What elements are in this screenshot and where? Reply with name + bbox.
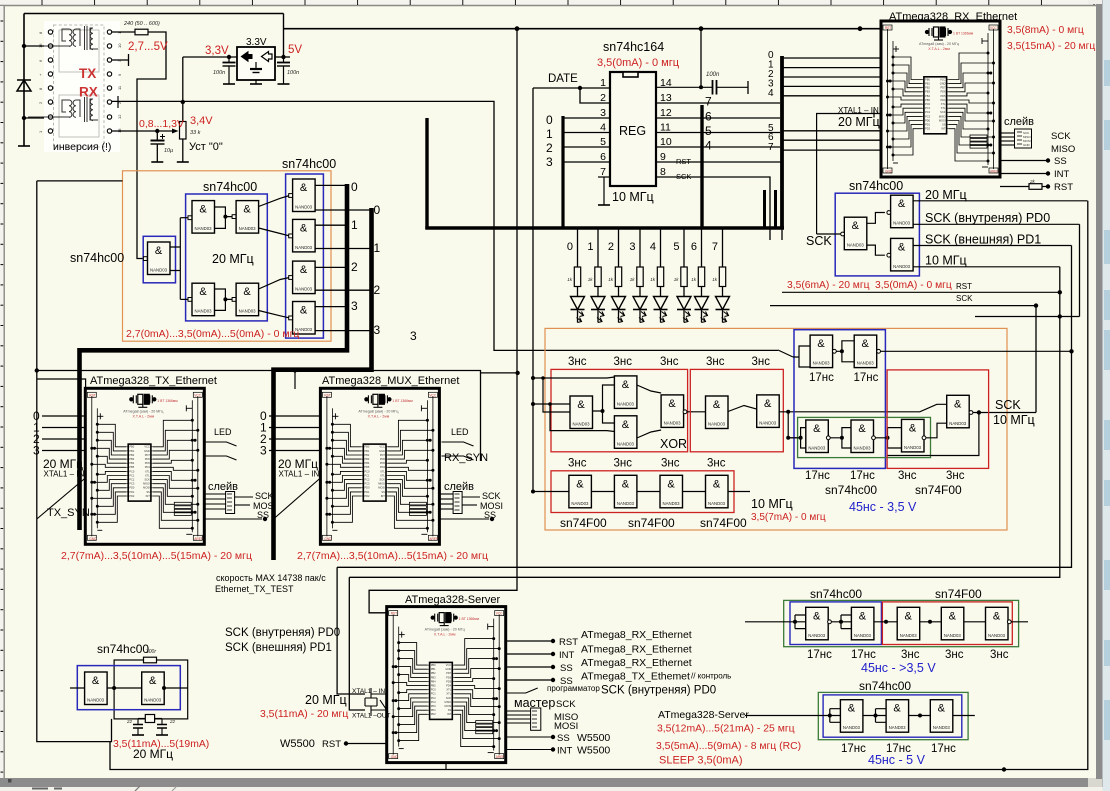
wire box A right rail (283, 14, 285, 58)
bottom scrollbar (0, 778, 1110, 787)
LED column 5 (683, 229, 685, 267)
node dot (699, 26, 704, 31)
RST wire from pin9 (656, 162, 782, 240)
node dot (227, 55, 231, 59)
blue box B (823, 695, 962, 737)
svg-text:20 МГц: 20 МГц (925, 188, 967, 202)
thick bus 1 (80, 184, 348, 530)
svg-text:2,7...5V: 2,7...5V (128, 41, 168, 53)
input wires from bus (783, 58, 881, 150)
regulator gnd (255, 80, 257, 84)
svg-text:инверсия (!): инверсия (!) (53, 141, 111, 153)
svg-text:MISO: MISO (1051, 144, 1075, 155)
long mid horizontals (337, 29, 1071, 710)
svg-text:2: 2 (374, 283, 381, 297)
svg-text:sn74hc00: sn74hc00 (97, 642, 149, 656)
node dot (155, 129, 159, 133)
NANDT3 output wires (170, 218, 180, 300)
blue box right tall (286, 174, 324, 338)
blue box left small (143, 236, 175, 282)
svg-text:3,5(5mA)...5(9mA) - 8 мгц (RC): 3,5(5mA)...5(9mA) - 8 мгц (RC) (656, 741, 801, 752)
bullet (263, 517, 267, 521)
svg-text:2: 2 (351, 260, 358, 274)
svg-text:ATmega328_MUX_Ethernet: ATmega328_MUX_Ethernet (322, 375, 459, 387)
svg-text:DATE: DATE (548, 73, 578, 85)
wire to NAND62 (180, 298, 188, 300)
svg-text:6: 6 (600, 151, 606, 163)
green box A (784, 600, 1019, 646)
svg-text:SCK: SCK (806, 234, 832, 248)
LED column 0 (577, 229, 579, 267)
MUX out wires (440, 494, 489, 519)
svg-text:3нс: 3нс (614, 458, 633, 470)
thick stub pair (763, 190, 766, 228)
svg-text:3,5(7mA) - 0 мгц: 3,5(7mA) - 0 мгц (751, 512, 826, 523)
box wire top (37, 371, 481, 462)
orange box big (545, 328, 1007, 530)
LED column 7 (722, 229, 724, 267)
input wire from left (533, 491, 569, 493)
node dot (840, 349, 844, 353)
svg-text:SCK: SCK (482, 491, 501, 501)
REG body (610, 72, 656, 186)
right scrollbar / window edge (1096, 0, 1103, 779)
gate NANDC5 bottom (891, 238, 914, 271)
bus labels (351, 180, 417, 343)
cap 100n left (223, 57, 236, 84)
svg-text:33 k: 33 k (190, 130, 201, 136)
svg-text:Уст "0": Уст "0" (189, 141, 223, 153)
input square (232, 215, 236, 219)
master wires (506, 711, 553, 750)
input square (232, 298, 236, 302)
red box A (882, 602, 1012, 645)
node dot (858, 26, 863, 31)
svg-text:INT: INT (1054, 169, 1070, 180)
caps (133, 719, 167, 736)
node dot (281, 55, 285, 59)
svg-text:SCK (внутреняя) PD0: SCK (внутреняя) PD0 (601, 685, 716, 697)
svg-text:3нс: 3нс (568, 356, 587, 368)
left ruler (0, 6, 4, 778)
wire to TX port (24, 45, 50, 47)
stub y60 (112, 54, 129, 66)
gate NANDC4 top (891, 195, 914, 228)
DATE wire (533, 88, 610, 103)
input circle (887, 211, 891, 215)
bus-in wires (563, 118, 610, 162)
svg-text:3нс: 3нс (706, 356, 725, 368)
green box (798, 417, 931, 457)
svg-text:программатор: программатор (547, 684, 600, 693)
wire to RX port (24, 117, 50, 119)
red box 2 (690, 369, 783, 451)
svg-text:3нс: 3нс (661, 458, 680, 470)
ground pin7 (603, 177, 605, 205)
svg-text:3,5(6mA) - 20 мгц: 3,5(6mA) - 20 мгц (787, 280, 870, 291)
svg-text:sn74hc00: sn74hc00 (859, 679, 911, 693)
3нс labels row1 (568, 356, 770, 368)
svg-text:W5500: W5500 (280, 738, 315, 750)
svg-text:0,8...1,3V: 0,8...1,3V (139, 118, 184, 130)
gate NAND04 (661, 395, 684, 428)
wire to NAND65 (180, 217, 188, 219)
svg-text:ATmega328-Server: ATmega328-Server (658, 709, 749, 721)
svg-text:10 МГц: 10 МГц (925, 254, 967, 268)
ethernet transformer ghost block (28, 21, 122, 152)
MUX top entry (294, 371, 296, 390)
gate NAND53 (660, 475, 683, 508)
gate NAND09 (757, 395, 780, 428)
svg-text:3,5(15mA) - 20 мгц: 3,5(15mA) - 20 мгц (1007, 41, 1095, 52)
svg-text:9: 9 (660, 151, 666, 163)
node dots (793, 620, 797, 624)
gate NAND12 (810, 335, 833, 368)
svg-text:5: 5 (705, 124, 712, 138)
out wires SCK MISO (1000, 133, 1015, 145)
svg-text:12: 12 (660, 107, 672, 119)
svg-text:XTAL1 – IN: XTAL1 – IN (279, 470, 320, 479)
crystal (138, 715, 162, 723)
output wires with labels (913, 201, 1087, 267)
svg-text:INT: INT (557, 746, 573, 757)
svg-text:TX_SYN: TX_SYN (47, 507, 90, 519)
svg-text:0: 0 (567, 241, 573, 253)
svg-text:1k: 1k (630, 277, 636, 282)
tick on RX wire (117, 96, 119, 108)
svg-text:REG: REG (619, 124, 646, 138)
svg-text:3: 3 (260, 444, 267, 458)
node dot (578, 86, 582, 90)
svg-text:5: 5 (673, 241, 679, 253)
svg-text:1k: 1k (608, 277, 614, 282)
svg-text:45нс - >3,5 V: 45нс - >3,5 V (861, 661, 936, 675)
svg-text:300r: 300r (146, 649, 156, 655)
thick reg bus left (561, 116, 564, 228)
svg-text:sn74F00: sn74F00 (935, 587, 982, 601)
xor wiring (533, 377, 694, 438)
gate NAND11 (854, 335, 877, 368)
svg-text:10 МГц: 10 МГц (993, 413, 1035, 427)
svg-text:3: 3 (410, 329, 417, 343)
input circle (887, 253, 891, 257)
svg-text:240 (50 .. 600): 240 (50 .. 600) (123, 21, 160, 27)
node dot (35, 368, 39, 372)
svg-text:1: 1 (587, 241, 593, 253)
svg-text:3,5(0mA) - 0 мгц: 3,5(0mA) - 0 мгц (875, 280, 952, 291)
cap C 10u (151, 131, 166, 162)
svg-text:sn74hc00: sn74hc00 (70, 251, 124, 265)
diode D1 (17, 80, 31, 91)
node dots (1058, 290, 1062, 294)
wiring box2 (694, 404, 947, 438)
svg-text:6: 6 (691, 241, 697, 253)
svg-text:22: 22 (169, 719, 176, 724)
gate NANDC2 (947, 395, 970, 428)
top-left entry wire (37, 379, 86, 389)
long RX wire y102 (112, 101, 778, 350)
node dots (799, 436, 803, 440)
red box right (887, 370, 989, 469)
svg-text:2: 2 (600, 92, 606, 104)
svg-text:22: 22 (126, 719, 133, 724)
svg-text:2: 2 (608, 241, 614, 253)
svg-text:3нс: 3нс (614, 356, 633, 368)
SCK wire from pin8 (656, 177, 770, 240)
chain A gates (806, 607, 829, 640)
svg-text:ATmega8_RX_Ethernet: ATmega8_RX_Ethernet (581, 644, 692, 656)
svg-text:10μ: 10μ (164, 148, 173, 154)
bus labels 0-3 MUX (260, 409, 267, 458)
notch (623, 72, 638, 77)
connector TX (226, 492, 235, 514)
svg-text:2k: 2k (1029, 179, 1036, 184)
output bubbles (833, 349, 837, 353)
xtal wire (817, 110, 882, 235)
svg-text:1: 1 (600, 77, 606, 89)
node dot (293, 368, 297, 372)
svg-text:W5500: W5500 (577, 745, 610, 757)
wires osc (70, 687, 188, 689)
thick stub mid (700, 105, 703, 228)
svg-text:17нс: 17нс (841, 743, 866, 755)
svg-text:1k: 1k (712, 277, 718, 282)
TX transformer windings (28, 26, 98, 50)
labels under A (807, 649, 1009, 661)
svg-text:3нс: 3нс (946, 470, 965, 482)
svg-text:17нс: 17нс (809, 372, 834, 384)
LED column 6 (701, 229, 703, 267)
TX out wires (205, 494, 262, 519)
svg-text:20 МГц: 20 МГц (305, 693, 347, 707)
svg-text:2: 2 (546, 141, 553, 155)
master connector (531, 708, 541, 730)
svg-text:0: 0 (351, 180, 358, 194)
connector (1015, 129, 1032, 148)
svg-text:0: 0 (546, 113, 553, 127)
in wire (817, 233, 841, 235)
svg-text:3нс: 3нс (945, 649, 964, 661)
left big box rail (37, 181, 112, 742)
svg-text:SCK (внутреняя) PD0: SCK (внутреняя) PD0 (225, 627, 340, 639)
svg-text:4: 4 (705, 139, 712, 153)
svg-text:sn74F00: sn74F00 (560, 516, 607, 530)
pin numbers right (660, 77, 672, 178)
svg-text:XOR: XOR (660, 437, 687, 451)
gate NANDF1 (85, 672, 108, 705)
svg-text:ATmega8_RX_Ethernet: ATmega8_RX_Ethernet (581, 657, 692, 669)
svg-text:17нс: 17нс (807, 649, 832, 661)
svg-text:4: 4 (768, 88, 774, 99)
svg-text:Ethernet_TX_TEST: Ethernet_TX_TEST (215, 584, 294, 594)
svg-text:5: 5 (600, 136, 606, 148)
svg-text:2,7(7mA)...3,5(10mA)...5(15mA): 2,7(7mA)...3,5(10mA)...5(15mA) - 20 мгц (61, 550, 252, 562)
svg-text:SS: SS (560, 663, 573, 674)
svg-text:RST: RST (956, 282, 972, 291)
svg-text:7: 7 (705, 95, 712, 109)
svg-text:45нс - 5 V: 45нс - 5 V (868, 753, 926, 767)
node dot (515, 26, 520, 31)
labels SCK MISO SS INT RST (1051, 131, 1075, 193)
pin number marks (38, 31, 122, 133)
pin7 stub (598, 176, 610, 178)
svg-text:1k: 1k (650, 277, 656, 282)
wire top of left box (37, 180, 123, 182)
DATE vertical (532, 88, 534, 492)
link NAND65-NAND64 (215, 207, 235, 228)
red box XOR (551, 369, 688, 451)
svg-text:1k: 1k (691, 277, 697, 282)
svg-text:10: 10 (660, 136, 672, 148)
svg-text:SCK (внутреняя) PD0: SCK (внутреняя) PD0 (925, 211, 1050, 225)
gate NANDC1 (902, 419, 925, 452)
RST/SCK wires to margin (770, 292, 1080, 316)
node dot (22, 44, 26, 48)
svg-text:3нс: 3нс (568, 458, 587, 470)
svg-text:ATmega328-Server: ATmega328-Server (405, 594, 501, 606)
blue box (77, 666, 180, 710)
top bus y28.7 (284, 28, 882, 30)
top ruler (0, 0, 1110, 5)
chain A wires (745, 615, 1028, 629)
node dot (22, 116, 26, 120)
gate NAND07 (614, 376, 637, 409)
svg-text:17нс: 17нс (931, 743, 956, 755)
svg-text:SCK (внешняя) PD1: SCK (внешняя) PD1 (225, 642, 332, 654)
gate NAND66 (236, 283, 259, 316)
svg-text:7: 7 (712, 241, 718, 253)
node dot (223, 297, 227, 301)
lower chain wiring (788, 413, 1036, 456)
svg-text:1: 1 (546, 127, 553, 141)
svg-text:13: 13 (660, 92, 672, 104)
wiring top pair (778, 341, 1072, 367)
resistor R240 (135, 29, 148, 35)
svg-text:1: 1 (374, 241, 381, 255)
svg-text:SCK: SCK (1051, 131, 1071, 142)
svg-text:ATmega8_TX_Ethemet: ATmega8_TX_Ethemet (581, 671, 690, 683)
blue box A (790, 602, 881, 645)
labels ATmega8_xx (581, 629, 692, 683)
port circles right (107, 30, 111, 133)
gate NAND42 (806, 420, 829, 453)
svg-text:3: 3 (351, 299, 358, 313)
pin numbers left (600, 77, 606, 178)
bullet + wire (344, 741, 348, 745)
svg-text:RST: RST (322, 739, 341, 750)
gate NANDF2 (142, 672, 165, 705)
svg-text:4: 4 (600, 122, 606, 134)
svg-text:3: 3 (546, 155, 553, 169)
gate NAND05 (614, 416, 637, 449)
wire from R240 (137, 32, 166, 259)
resistor on top (144, 657, 157, 663)
node dot (515, 371, 519, 375)
input square (188, 298, 192, 302)
MUX input wires (269, 416, 320, 451)
blue box mid (186, 194, 268, 321)
LED arrows MUX (442, 442, 474, 460)
svg-text:sn74hc00: sn74hc00 (825, 483, 877, 497)
window corner mark (0, 0, 3, 13)
cap 100n top (656, 29, 748, 95)
RX transformer windings (28, 97, 98, 122)
svg-text:GND: GND (1023, 143, 1031, 147)
svg-text:3: 3 (374, 323, 381, 337)
thick bus 2 (274, 208, 372, 560)
svg-text:3нс: 3нс (901, 649, 920, 661)
svg-text:1k: 1k (674, 277, 680, 282)
svg-text:sn74F00: sn74F00 (628, 516, 675, 530)
node dots (828, 714, 832, 718)
svg-text:3нс: 3нс (660, 356, 679, 368)
links (867, 213, 885, 256)
green box B (818, 692, 968, 739)
node dot (181, 100, 185, 104)
svg-text:8: 8 (660, 166, 666, 178)
REG enclosure thick left (425, 118, 428, 229)
svg-text:3.3V: 3.3V (246, 37, 267, 48)
LED column 4 (660, 229, 662, 267)
LED arrows (205, 442, 237, 460)
svg-text:SS: SS (557, 733, 570, 744)
right column gates NAND60 NAND61 NAND63 NAND67 (293, 179, 316, 212)
svg-text:sn74hc00: sn74hc00 (849, 179, 903, 193)
ground (18, 145, 30, 147)
node dot (223, 215, 227, 219)
gate NAND08 (706, 396, 729, 429)
svg-text:RST: RST (1054, 182, 1073, 193)
svg-text:17нс: 17нс (854, 372, 879, 384)
svg-text:RX_SYN: RX_SYN (444, 452, 488, 464)
svg-text:SS: SS (1054, 156, 1067, 167)
input square (188, 216, 192, 220)
bubbles (828, 620, 832, 624)
port circles left (48, 30, 52, 133)
NAND66 out wires (259, 278, 290, 318)
svg-text:3: 3 (33, 444, 40, 458)
svg-text:слейв: слейв (1004, 116, 1034, 128)
svg-text:0: 0 (374, 203, 381, 217)
svg-text:2,7(0mA)...3,5(0mA)...5(0mA) -: 2,7(0mA)...3,5(0mA)...5(0mA) - 0 мгц (126, 328, 299, 340)
chain wires (591, 491, 750, 493)
ground (177, 161, 189, 163)
svg-text:ATmega328_TX_Ethernet: ATmega328_TX_Ethernet (90, 375, 217, 387)
labels under B (841, 743, 956, 755)
programmer arrow (506, 688, 538, 693)
svg-text:SCK: SCK (995, 398, 1021, 412)
svg-text:3,4V: 3,4V (190, 115, 213, 127)
svg-text:5V: 5V (288, 44, 302, 56)
TX input wires (42, 416, 85, 451)
bus labels 0-3 TX (33, 409, 40, 458)
svg-text:1k: 1k (567, 277, 573, 282)
gate NANDC3 (844, 217, 867, 250)
NANDC2 output bubble (969, 411, 973, 415)
svg-text:INT: INT (559, 650, 575, 661)
svg-text:LED: LED (214, 427, 232, 437)
wire mux-out to x517 net (481, 372, 518, 374)
link NAND62-NAND66 (215, 289, 235, 310)
svg-text:3,5(11mA) - 20 мгц: 3,5(11mA) - 20 мгц (260, 709, 348, 720)
svg-text:ATmega8_RX_Ethernet: ATmega8_RX_Ethernet (581, 629, 692, 641)
block U_TX (85, 388, 204, 544)
gate NAND62 (192, 283, 215, 316)
gate NAND64 (236, 201, 259, 234)
node dots (531, 376, 535, 380)
svg-text:sn74F00: sn74F00 (915, 483, 962, 497)
output bubbles lower (826, 436, 830, 440)
